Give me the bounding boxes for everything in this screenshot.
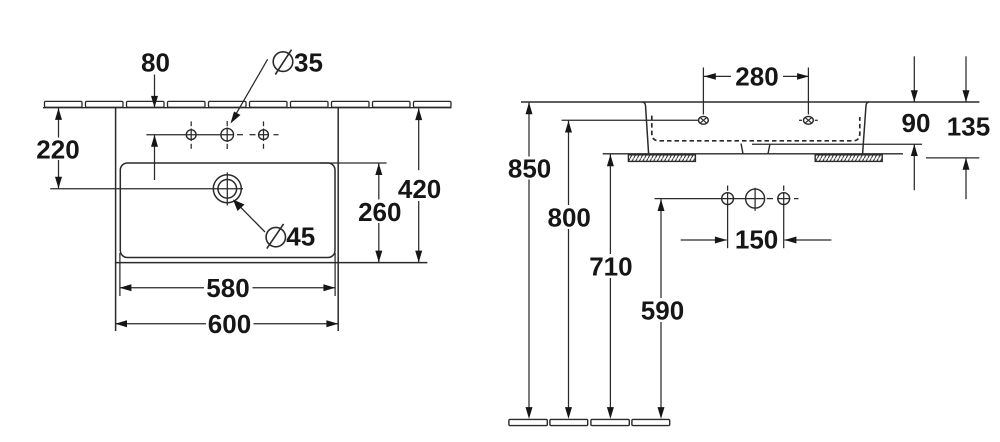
basin outer bottom edge [116,262,428,264]
dim 280 arrow right [797,73,809,80]
floor mark 4 [632,419,670,425]
floor mark 1 [509,419,547,425]
dim 220 arrow up [55,108,62,120]
drain hole outer circle [213,175,241,203]
basin outer right edge [337,108,339,331]
dim 90 arrow up [911,144,918,156]
dim 280 line [704,75,731,77]
faucet hole right [259,130,269,140]
svg-text:35: 35 [294,48,323,78]
svg-text:280: 280 [735,61,778,91]
label D45 arrowhead [233,200,245,212]
svg-text:260: 260 [358,197,401,227]
basin left edge [643,102,649,154]
dim 800 arrow down [565,407,572,419]
inner right extension line [334,253,336,296]
svg-text:710: 710 [589,252,632,282]
supply hole middle [746,189,765,208]
faucet holes centerline [146,134,233,136]
drain boss left line [741,144,743,154]
centerline dash-dot to right hole [237,134,243,136]
dim 150 line left [681,239,727,241]
dim 150 arrow right-pointing [715,237,727,244]
dim 590 line [660,199,662,298]
dim 800 line [568,121,570,205]
dim 580 arrow left [120,284,132,291]
supply hole right [778,193,790,205]
basin bottom edge with extensions [603,153,903,155]
dim 135 line [965,56,967,102]
dim 260 line [378,163,380,199]
svg-text:420: 420 [398,174,441,204]
svg-text:220: 220 [36,134,79,164]
svg-text:600: 600 [208,309,251,339]
svg-text:90: 90 [902,108,931,138]
mounting hatch strip left [628,155,695,162]
svg-text:80: 80 [141,48,170,78]
label D35 arrowhead [231,112,241,124]
dim 710 arrow down [607,407,614,419]
drain boss right line [768,144,770,154]
dim 220 arrow down [55,177,62,189]
dim 280 extension left [702,68,704,115]
svg-text:800: 800 [548,203,591,233]
mounting hatch strip right [815,155,882,162]
inner ledge line (90 extension) [752,143,922,145]
dim 135 arrow down [963,90,970,102]
dim 90 arrow down [911,90,918,102]
faucet hole left [186,130,196,140]
supply hole left [722,193,734,205]
drain horizontal centerline / 220 extension [50,188,243,190]
dim 710 arrow up [607,155,614,167]
fixing hole right stubs [799,119,802,121]
basin inner bowl rounded rect [120,163,335,258]
dim 420 arrow up [415,108,422,120]
dim 150 arrow left-pointing [785,237,797,244]
dim 850 arrow up [526,102,533,114]
fixing hole right [804,116,814,124]
dim 800 arrow up [565,121,572,133]
dim 580 arrow right [323,284,335,291]
dim 80 line [154,75,156,108]
basin outer left edge [115,108,117,331]
label D35 leader [232,59,268,122]
dim 590 arrow down [658,407,665,419]
bowl dashed outline [652,116,860,141]
supply centerline [655,198,765,200]
dim 280 extension right [807,68,809,115]
floor mark 2 [550,419,588,425]
dim 260 arrow up [375,163,382,175]
dim 710 line [609,155,611,255]
svg-text:580: 580 [206,273,249,303]
dim 600 line [115,323,206,325]
dim 600 arrow left [115,320,127,327]
inner left extension line [119,253,121,296]
fixing hole left [699,116,709,124]
drain vertical centerline [226,172,228,205]
dim 800 connector line [562,119,699,121]
dim 80 arrow up [151,135,158,147]
svg-text:590: 590 [641,296,684,326]
dim 850 arrow down [526,407,533,419]
dim 280 arrow left [704,73,716,80]
dim 600 arrow right [326,320,338,327]
wall tile segments [45,101,452,107]
dim 420 arrow down [415,251,422,263]
basin right edge [863,102,869,154]
label D35 diameter symbol [273,52,293,72]
wall line [43,107,452,109]
label D45 leader [235,202,265,233]
dim 850 line [528,102,530,156]
dim 420 line [418,108,420,170]
label D45 diameter symbol [266,227,285,246]
svg-text:45: 45 [286,221,315,251]
dim 260 arrow down [375,251,382,263]
dim 135 bottom extension [926,157,979,159]
drain hole inner circle [218,180,237,199]
dim 90 line [913,56,915,102]
dim 150 line right [785,239,832,241]
dim 590 arrow up [658,199,665,211]
dim 80 arrow down [151,96,158,108]
faucet hole center [221,128,234,141]
svg-text:850: 850 [508,154,551,184]
dim 220 line [58,108,60,137]
floor mark 3 [591,419,629,425]
rim top line [521,101,979,103]
svg-text:150: 150 [735,224,778,254]
inner top extension line [320,162,387,164]
dim 580 line [120,287,204,289]
svg-text:135: 135 [947,112,990,142]
dim 135 arrow up [963,158,970,170]
